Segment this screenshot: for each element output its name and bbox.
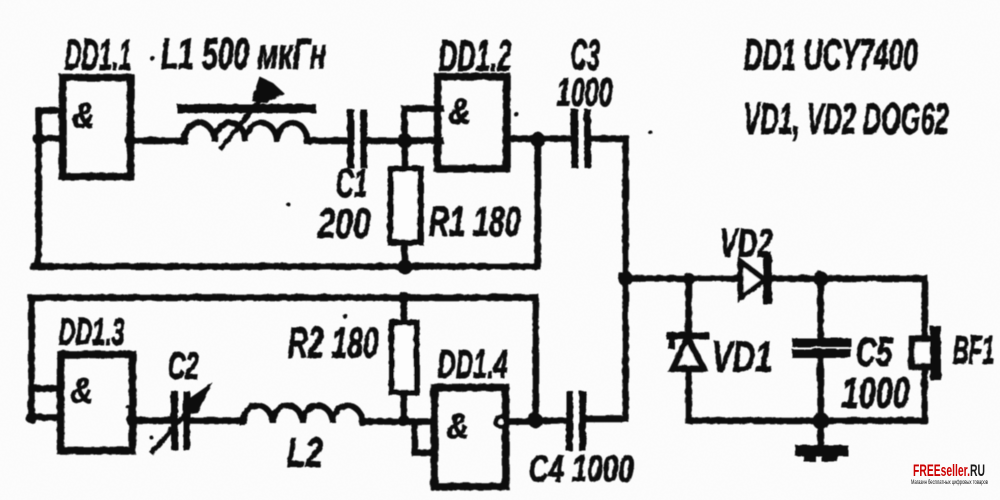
svg-text:L1 500 мкГн: L1 500 мкГн [160,29,326,78]
svg-text:C4 1000: C4 1000 [528,448,633,490]
svg-text:1000: 1000 [841,368,909,417]
svg-text:DD1.2: DD1.2 [438,31,511,80]
svg-text:&: & [448,90,470,131]
svg-text:FREEseller.RU: FREEseller.RU [913,461,985,480]
svg-text:DD1.4: DD1.4 [437,342,507,386]
svg-text:L2: L2 [286,428,322,475]
svg-text:DD1.1: DD1.1 [64,30,131,79]
svg-text:R1 180: R1 180 [428,197,520,244]
svg-text:Магазин бесплатных цифровых то: Магазин бесплатных цифровых товаров [911,478,988,486]
svg-text:1000: 1000 [556,70,612,114]
svg-text:C2: C2 [167,345,198,387]
svg-text:&: & [72,94,94,135]
svg-text:200: 200 [316,199,370,246]
svg-text:BF1: BF1 [952,328,994,372]
svg-text:&: & [446,405,468,446]
svg-text:&: & [70,369,92,410]
svg-text:DD1.3: DD1.3 [58,311,124,353]
svg-text:VD1, VD2 DOG62: VD1, VD2 DOG62 [743,94,948,143]
svg-text:VD2: VD2 [719,221,772,265]
svg-text:DD1 UCY7400: DD1 UCY7400 [743,30,917,79]
svg-text:VD1: VD1 [711,332,772,381]
svg-text:R2 180: R2 180 [287,318,378,367]
